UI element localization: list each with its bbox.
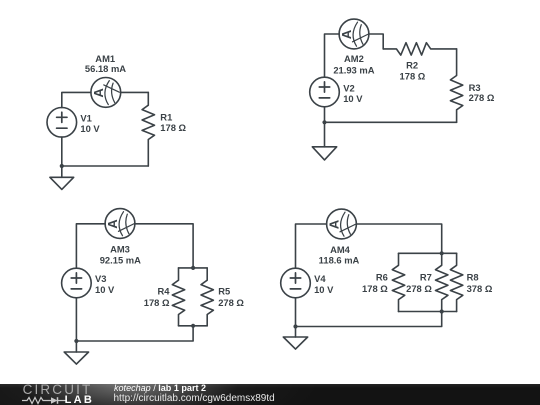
- wire bottom of circuit 2: [325, 121, 457, 123]
- svg-text:278 Ω: 278 Ω: [469, 92, 495, 103]
- svg-text:R8: R8: [467, 272, 479, 283]
- ground circuit 4: [283, 327, 307, 350]
- wire bottom of circuit 1: [62, 165, 149, 167]
- resistor R6: [392, 253, 404, 311]
- node junction ground 3: [74, 339, 78, 343]
- wire from AM2 left to V2 top: [325, 34, 340, 77]
- svg-text:AM2: AM2: [344, 53, 364, 64]
- wire V2 bottom to ground node: [324, 107, 326, 123]
- svg-text:AM4: AM4: [330, 244, 351, 255]
- svg-text:A: A: [105, 219, 120, 229]
- svg-text:V4: V4: [314, 273, 326, 284]
- voltage source V4: [281, 268, 311, 298]
- logo LAB text: [65, 394, 95, 405]
- node junction circuit1: [60, 164, 64, 168]
- top rail parallel R4 R5: [179, 267, 208, 269]
- svg-text:21.93 mA: 21.93 mA: [333, 65, 374, 76]
- resistor R4: [172, 268, 184, 326]
- svg-text:178 Ω: 178 Ω: [400, 70, 426, 81]
- ammeter AM2: [339, 19, 369, 49]
- logo wire resistor zigzag: [22, 398, 51, 404]
- ground circuit 1: [50, 166, 74, 189]
- svg-text:92.15 mA: 92.15 mA: [100, 255, 141, 266]
- voltage source V3: [62, 268, 92, 298]
- svg-text:A: A: [327, 219, 342, 229]
- svg-text:R2: R2: [406, 60, 418, 71]
- voltage source V2: [310, 77, 340, 107]
- logo resistor-diode glyph + LAB: [21, 396, 93, 405]
- resistor R3: [450, 49, 462, 122]
- svg-text:10 V: 10 V: [95, 284, 115, 295]
- resistor R7: [436, 253, 448, 311]
- voltage source V1: [47, 108, 77, 138]
- wire bottom of circuit 3: [76, 326, 193, 341]
- svg-text:R4: R4: [158, 286, 171, 297]
- resistor R1: [142, 92, 154, 166]
- node junction parallel bottom 4: [440, 309, 444, 313]
- ground circuit 3: [64, 341, 88, 364]
- resistor R2: [383, 43, 456, 55]
- svg-text:R7: R7: [420, 272, 432, 283]
- svg-text:R5: R5: [218, 286, 230, 297]
- ammeter AM4: [327, 209, 357, 239]
- wire from AM4 right to parallel top: [356, 224, 441, 253]
- wire V3 bottom to ground node: [75, 298, 77, 341]
- footer url line: [114, 393, 275, 404]
- svg-text:56.18 mA: 56.18 mA: [85, 63, 126, 74]
- logo diode: [51, 397, 58, 404]
- footer bar: [0, 384, 540, 405]
- svg-text:178 Ω: 178 Ω: [160, 122, 186, 133]
- wire V4 bottom to ground node: [295, 298, 297, 327]
- svg-text:R1: R1: [160, 112, 172, 123]
- svg-text:10 V: 10 V: [314, 284, 334, 295]
- node junction circuit2: [322, 120, 326, 124]
- svg-text:278 Ω: 278 Ω: [218, 297, 244, 308]
- wire from AM1 right to R1 top: [121, 91, 149, 93]
- wire from AM3 right to parallel top: [135, 224, 193, 268]
- ground circuit 2: [312, 122, 336, 160]
- node junction parallel top: [191, 266, 195, 270]
- svg-text:R6: R6: [376, 272, 388, 283]
- svg-text:A: A: [339, 29, 354, 39]
- ammeter AM1: [91, 78, 121, 108]
- resistor R5: [201, 268, 213, 326]
- bottom rail parallel R4 R5: [179, 325, 208, 327]
- svg-text:V1: V1: [80, 112, 91, 123]
- svg-text:A: A: [91, 88, 106, 98]
- wire V1 bottom to ground node: [61, 137, 63, 166]
- svg-text:178 Ω: 178 Ω: [362, 283, 388, 294]
- svg-text:178 Ω: 178 Ω: [144, 297, 170, 308]
- node junction parallel bottom: [191, 324, 195, 328]
- svg-text:10 V: 10 V: [80, 123, 100, 134]
- wire from AM4 left to V4 top: [296, 224, 327, 268]
- svg-text:V3: V3: [95, 273, 106, 284]
- node junction ground 4: [293, 324, 297, 328]
- top rail parallel R6 R7 R8: [399, 252, 457, 254]
- svg-text:10 V: 10 V: [343, 93, 363, 104]
- wire bottom of circuit 4: [296, 312, 442, 327]
- svg-text:V2: V2: [343, 82, 354, 93]
- resistor R8: [450, 253, 462, 311]
- svg-text:378 Ω: 378 Ω: [467, 283, 493, 294]
- node junction parallel top 4: [440, 251, 444, 255]
- bottom rail parallel R6 R7 R8: [399, 311, 457, 313]
- logo CIRCUIT text: [23, 382, 93, 397]
- wire from AM3 left to V3 top: [76, 224, 105, 268]
- wire from AM2 right to R2: [369, 34, 383, 49]
- footer title line: [114, 383, 206, 393]
- wire from AM1 left to V1 top: [62, 92, 91, 107]
- svg-text:118.6 mA: 118.6 mA: [319, 255, 360, 266]
- svg-text:AM3: AM3: [110, 244, 130, 255]
- ammeter AM3: [105, 209, 135, 239]
- svg-text:278 Ω: 278 Ω: [406, 283, 432, 294]
